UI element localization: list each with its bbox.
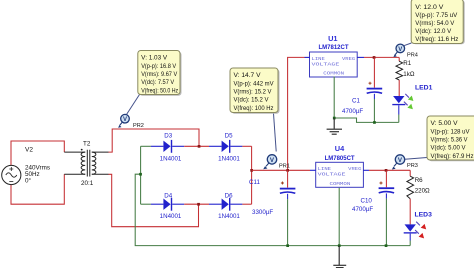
LED3: [404, 211, 432, 245]
svg-text:C1: C1: [352, 98, 360, 105]
svg-text:3300µF: 3300µF: [252, 209, 273, 216]
svg-text:D5: D5: [225, 132, 233, 139]
wire D4 anode lead: [151, 203, 164, 205]
svg-text:COMMON: COMMON: [330, 181, 351, 187]
wire U1 input stub: [305, 56, 310, 58]
svg-text:V: 12.0 V: V: 12.0 V: [415, 4, 444, 11]
wire D6 anode lead: [209, 203, 222, 205]
leader PR2 to box: [127, 95, 140, 115]
svg-text:4700µF: 4700µF: [352, 206, 373, 213]
svg-text:PR4: PR4: [407, 52, 418, 58]
wire V2 top loop: [11, 141, 64, 165]
svg-text:D3: D3: [164, 132, 172, 139]
wire ground horizontal under U1: [334, 118, 399, 122]
svg-text:V: 5.00 V: V: 5.00 V: [431, 120, 459, 127]
svg-text:4700µF: 4700µF: [342, 108, 363, 115]
node bridge left junction: [139, 173, 142, 176]
svg-text:V(rms): 9.67 V: V(rms): 9.67 V: [141, 71, 178, 78]
svg-text:V(dc): 15.2 V: V(dc): 15.2 V: [234, 97, 270, 104]
node C11 ground junction: [286, 244, 289, 247]
regulator U1: [310, 34, 358, 77]
node C10 junction: [385, 169, 388, 172]
svg-text:V(freq): 11.6 Hz: V(freq): 11.6 Hz: [415, 36, 458, 43]
wire U1 output: [357, 56, 364, 58]
wire D6 to right corner: [242, 203, 251, 205]
source V2: [2, 146, 50, 184]
svg-text:U4: U4: [335, 144, 345, 153]
wire D3 anode lead: [151, 145, 164, 147]
node bottom AC junction: [197, 203, 200, 206]
probe PR1: [263, 155, 290, 170]
svg-text:VOLTAGE: VOLTAGE: [312, 61, 340, 67]
svg-text:V(freq): 100 Hz: V(freq): 100 Hz: [234, 105, 274, 112]
svg-text:1kΩ: 1kΩ: [403, 71, 415, 78]
node C1 ground junction: [373, 121, 376, 124]
svg-text:PR1: PR1: [279, 164, 290, 170]
svg-text:V(dc): 7.57 V: V(dc): 7.57 V: [141, 79, 175, 86]
wire V2 bottom loop: [11, 174, 64, 204]
svg-text:T2: T2: [83, 140, 91, 147]
svg-text:1N4001: 1N4001: [160, 213, 182, 220]
svg-text:V(p-p): 442 mV: V(p-p): 442 mV: [234, 80, 275, 87]
svg-text:VOLTAGE: VOLTAGE: [318, 172, 346, 178]
leader PR4 to box: [404, 43, 412, 46]
svg-text:LINE: LINE: [312, 56, 326, 62]
LED1: [392, 84, 432, 122]
svg-text:V(rms): 5.36 V: V(rms): 5.36 V: [431, 137, 469, 144]
measurement box PR3: [427, 116, 474, 161]
measurement box PR2: [138, 51, 182, 96]
svg-text:V(p-p): 7.75 uV: V(p-p): 7.75 uV: [415, 12, 458, 19]
svg-text:220Ω: 220Ω: [415, 188, 430, 195]
wire bridge top-left stub: [141, 145, 151, 147]
diode D5: [218, 132, 242, 162]
wire U4 common: [338, 188, 340, 246]
capacitor C1: [342, 57, 382, 122]
diode D3: [160, 132, 185, 162]
capacitor C10: [352, 170, 394, 245]
svg-text:V(p-p): 16.8 V: V(p-p): 16.8 V: [141, 63, 177, 70]
svg-text:V(rms): 15.2 V: V(rms): 15.2 V: [234, 89, 273, 96]
wire D3-D5: [184, 145, 209, 147]
svg-text:VREG: VREG: [342, 56, 355, 62]
leader PR3 to box: [405, 158, 427, 160]
svg-text:V: V: [398, 47, 402, 53]
svg-text:R1: R1: [403, 60, 411, 67]
svg-text:LM7812CT: LM7812CT: [319, 45, 349, 51]
svg-text:D6: D6: [225, 192, 233, 199]
wire bridge left vertical (green): [140, 146, 142, 204]
svg-text:1N4001: 1N4001: [160, 155, 182, 162]
wire ground rail bottom: [135, 174, 410, 245]
svg-text:V(freq): 67.9 Hz: V(freq): 67.9 Hz: [431, 153, 474, 160]
node +15V tap on bridge: [250, 169, 253, 172]
measurement box PR4: [411, 0, 465, 44]
svg-text:V: 14.7 V: V: 14.7 V: [234, 72, 262, 79]
measurement box PR1: [230, 68, 280, 114]
wire secondary bottom to bridge: [109, 174, 199, 226]
svg-text:C11: C11: [249, 179, 260, 186]
svg-text:U1: U1: [328, 34, 337, 43]
svg-text:1N4001: 1N4001: [218, 155, 240, 162]
svg-text:VREG: VREG: [348, 166, 361, 172]
diode D6: [218, 192, 242, 220]
ground under U1: [333, 117, 336, 120]
svg-text:C10: C10: [361, 198, 373, 205]
svg-text:V(freq): 50.0 Hz: V(freq): 50.0 Hz: [141, 87, 178, 94]
svg-text:V: V: [123, 117, 127, 123]
wire U1 common: [333, 77, 335, 119]
svg-text:V(p-p): 128 uV: V(p-p): 128 uV: [431, 128, 471, 135]
resistor R6: [407, 170, 430, 224]
wire +15V rail: [252, 169, 310, 171]
transformer T2: [64, 140, 108, 187]
svg-text:V2: V2: [25, 146, 33, 153]
svg-text:V(dc): 5.00 V: V(dc): 5.00 V: [431, 145, 467, 152]
wire bridge right vertical: [251, 146, 253, 204]
probe PR4: [393, 44, 417, 58]
svg-text:0°: 0°: [25, 177, 32, 185]
node C10 ground junction: [385, 244, 388, 247]
svg-text:1N4001: 1N4001: [218, 213, 240, 220]
svg-text:LINE: LINE: [318, 166, 332, 172]
svg-text:PR2: PR2: [133, 123, 144, 129]
wire bridge bottom-left stub: [141, 203, 151, 205]
resistor R1: [396, 57, 415, 96]
node C11 junction: [286, 169, 289, 172]
wire D4-D6: [184, 203, 209, 205]
svg-text:R6: R6: [415, 177, 423, 184]
svg-text:COMMON: COMMON: [323, 71, 344, 77]
svg-text:V: 1.03 V: V: 1.03 V: [141, 55, 168, 62]
node top AC junction: [198, 145, 201, 148]
node C1 junction: [373, 56, 376, 59]
svg-text:PR3: PR3: [407, 163, 418, 169]
leader PR1 to box: [273, 112, 276, 152]
wire D5 anode lead: [209, 145, 222, 147]
svg-text:LED1: LED1: [415, 84, 433, 91]
svg-text:V(dc): 12.0 V: V(dc): 12.0 V: [415, 28, 452, 35]
probe PR2: [118, 114, 144, 129]
svg-text:LED3: LED3: [415, 211, 433, 218]
wire U4 input stub: [310, 169, 316, 171]
probe PR3: [392, 155, 418, 170]
wire D5 to right corner: [242, 145, 251, 147]
node U4 ground junction: [338, 244, 341, 247]
diode D4: [160, 192, 185, 220]
wire secondary top to bridge: [109, 129, 200, 152]
svg-text:LM7805CT: LM7805CT: [325, 156, 355, 162]
capacitor C11: [249, 170, 295, 245]
wire U4 output: [363, 169, 369, 171]
wire riser to U1 input: [288, 57, 305, 170]
ground under U4: [333, 246, 346, 268]
svg-text:20:1: 20:1: [81, 180, 94, 187]
regulator U4: [316, 144, 364, 187]
svg-text:V(rms): 54.0 V: V(rms): 54.0 V: [415, 20, 455, 27]
